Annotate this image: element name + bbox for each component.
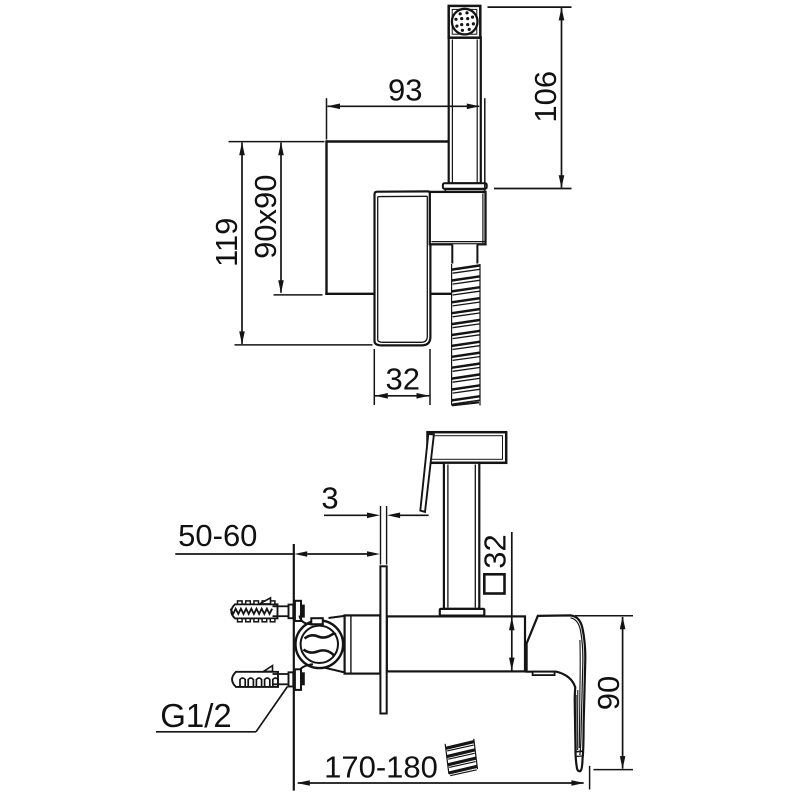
spray trigger nozzle (side view) (420, 434, 434, 512)
hand shower body (front view) (449, 37, 481, 183)
dimension square-32 (body) (477, 532, 514, 671)
wall plug bottom (dowel) (232, 672, 278, 688)
holder collar (front view) (443, 183, 487, 192)
column base plate (side view) (440, 609, 485, 616)
body right edge double line (524, 618, 526, 671)
svg-text:50-60: 50-60 (178, 518, 257, 553)
fixing screw bottom (264, 666, 294, 687)
svg-text:90x90: 90x90 (248, 174, 283, 258)
dimension 93 (horizontal) (327, 72, 485, 190)
dimension 90 (lever height) (575, 616, 633, 770)
bottom mounting lug at wall (295, 664, 313, 690)
svg-text:106: 106 (528, 71, 563, 123)
wall line (side view) (293, 544, 295, 791)
hand shower head (front view) (449, 6, 481, 38)
lever base lip (533, 672, 555, 675)
svg-text:119: 119 (209, 218, 244, 267)
spray face circle (452, 9, 478, 35)
body section behind wall plate (345, 615, 381, 673)
top mounting lug at wall (295, 601, 313, 625)
mixer lever handle (front view) (375, 191, 431, 345)
svg-text:90: 90 (591, 676, 626, 710)
inlet cone (325, 616, 346, 673)
dimension 119 (vertical left) (209, 142, 373, 345)
spray nozzle dots (454, 11, 475, 32)
eccentric slot marks (304, 634, 336, 657)
hand shower head (side view) (428, 432, 507, 463)
dimension 106 (vertical right) (488, 7, 572, 188)
wall plug top (dowel) (231, 601, 277, 622)
connector top nipple (311, 618, 323, 624)
eccentric connector circle (296, 621, 344, 669)
svg-text:G1/2: G1/2 (160, 697, 232, 734)
svg-text:170-180: 170-180 (324, 750, 438, 785)
dimension 90x90 (vertical) (248, 142, 323, 295)
mixer body (side view) (387, 616, 525, 671)
svg-text:32: 32 (477, 534, 512, 568)
svg-text:93: 93 (388, 72, 422, 107)
wall holder bracket (front view) (430, 192, 486, 244)
label G1/2 with leader (156, 687, 288, 735)
shower hose coil (front view) (451, 264, 480, 407)
dimension 32 (handle width) (374, 349, 430, 405)
hose break piece (side view) (445, 739, 478, 776)
fixing screw top (231, 598, 294, 618)
wall plate (side view) (380, 566, 386, 713)
dimension 50-60 (175, 518, 380, 557)
holder column (side view) (444, 463, 479, 609)
svg-text:3: 3 (321, 480, 338, 515)
dimension 3 (plate thickness) (321, 480, 428, 564)
dimension 170-180 (297, 750, 590, 790)
svg-text:32: 32 (386, 361, 420, 396)
wall plate 90x90 (front view) (325, 140, 451, 295)
hose nipple (front view) (452, 244, 477, 263)
mixer lever (side view) (527, 615, 586, 771)
